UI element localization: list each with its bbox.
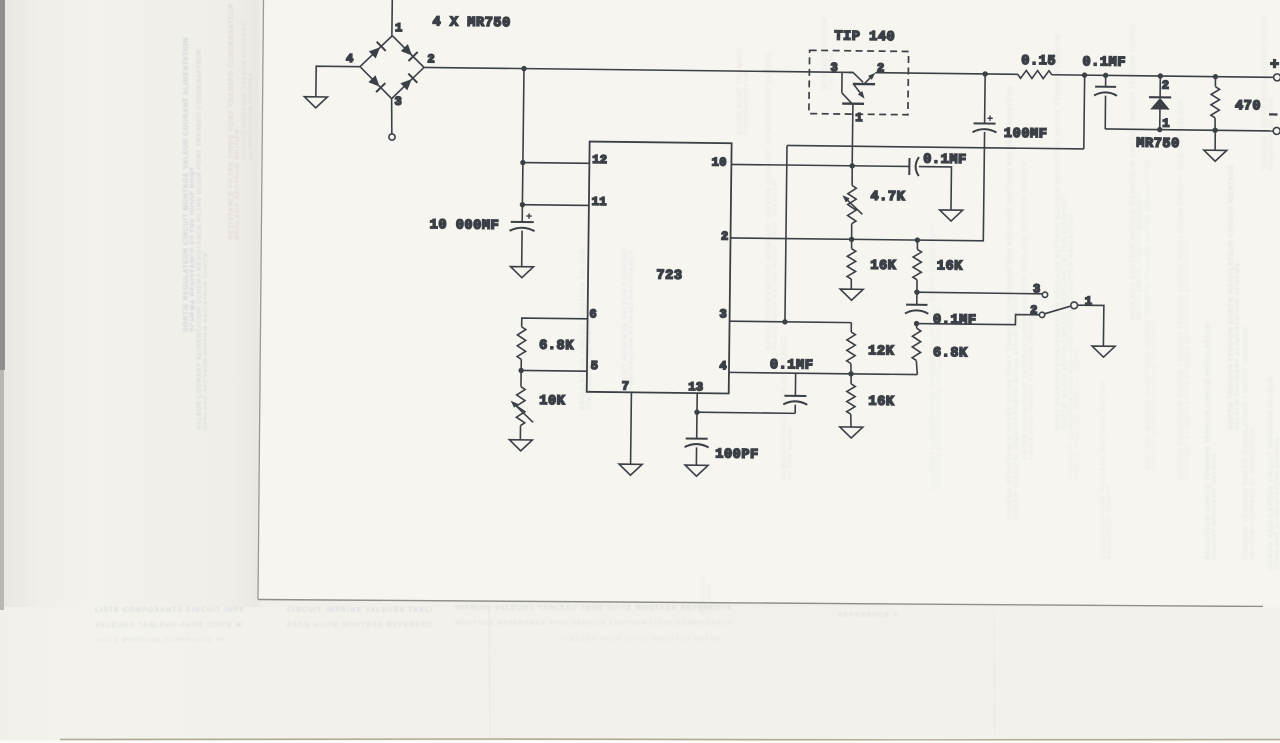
capacitor 0.1MF divider bbox=[906, 304, 927, 306]
wire feedback horizontal bbox=[787, 145, 1084, 148]
svg-text:12: 12 bbox=[592, 153, 607, 167]
svg-text:2: 2 bbox=[877, 61, 884, 75]
svg-text:1: 1 bbox=[1085, 294, 1092, 308]
node contact 2 bbox=[1039, 312, 1044, 317]
svg-text:0.1MF: 0.1MF bbox=[1082, 55, 1126, 71]
wire pole to ground bbox=[1077, 305, 1104, 346]
svg-text:10 000MF: 10 000MF bbox=[430, 218, 500, 234]
ground output bbox=[1204, 150, 1227, 161]
wire cap to ground bbox=[521, 231, 523, 267]
wire to contact 2 bbox=[917, 313, 1040, 325]
svg-text:1: 1 bbox=[1162, 117, 1169, 131]
ground switch bbox=[1092, 346, 1115, 357]
node + terminal bbox=[1274, 74, 1280, 81]
capacitor 10 000MF bbox=[511, 221, 534, 223]
svg-text:+: + bbox=[1270, 56, 1279, 73]
ground pin10 cap bbox=[940, 210, 963, 221]
wire to pin 12 bbox=[523, 162, 589, 165]
wire AC input top bbox=[391, 0, 393, 36]
svg-text:10K: 10K bbox=[539, 394, 566, 409]
node switch pole 1 bbox=[1071, 302, 1078, 309]
potentiometer 10K bbox=[520, 370, 522, 386]
wire filter vertical bbox=[522, 69, 524, 222]
junction pin13 bbox=[694, 409, 699, 414]
svg-text:5: 5 bbox=[591, 359, 598, 373]
svg-text:6.8K: 6.8K bbox=[933, 346, 968, 361]
resistor 16K right bbox=[916, 240, 918, 249]
schematic sheet bbox=[258, 0, 1280, 608]
faint vertical fold below sheet bbox=[489, 607, 490, 737]
svg-text:3: 3 bbox=[1033, 282, 1040, 296]
node AC terminal O bbox=[389, 134, 395, 140]
svg-text:3: 3 bbox=[719, 307, 726, 321]
junction emitter/pin10 bbox=[849, 163, 854, 168]
wire pin 10 bbox=[731, 164, 909, 166]
svg-text:11: 11 bbox=[592, 195, 607, 209]
svg-text:6.8K: 6.8K bbox=[539, 339, 574, 354]
resistor 6.8K right bbox=[915, 324, 917, 329]
resistor 6.8K left bbox=[517, 327, 526, 360]
svg-text:4: 4 bbox=[346, 52, 353, 66]
svg-text:0.15: 0.15 bbox=[1021, 54, 1056, 69]
svg-text:4: 4 bbox=[719, 359, 726, 373]
wire pin 5 bbox=[521, 369, 587, 372]
resistor 16K bottom bbox=[850, 374, 852, 384]
svg-text:2: 2 bbox=[427, 52, 434, 66]
capacitor 100MF bbox=[982, 71, 987, 76]
svg-text:TIP 140: TIP 140 bbox=[834, 29, 895, 45]
svg-text:16K: 16K bbox=[870, 259, 897, 274]
svg-text:16K: 16K bbox=[937, 259, 964, 274]
wire feedback vertical bbox=[785, 145, 787, 321]
wire emitter down bbox=[851, 104, 854, 166]
scanner left dark edge bbox=[0, 0, 5, 370]
svg-text:1: 1 bbox=[395, 21, 402, 35]
junction pin5 bbox=[518, 368, 523, 373]
wire rail to ground bbox=[1214, 130, 1216, 150]
junction 12K/pin4 bbox=[848, 371, 853, 376]
wire pin 4 bbox=[729, 372, 917, 374]
junction 4.7K/pin2 bbox=[849, 237, 854, 242]
junction pin12 bbox=[520, 160, 525, 165]
sheet left edge bbox=[258, 0, 264, 600]
junction pin11 bbox=[520, 202, 525, 207]
sheet bottom edge bbox=[258, 600, 1263, 607]
node contact 3 bbox=[1042, 292, 1047, 297]
wire to pin 11 bbox=[522, 204, 588, 207]
capacitor 0.1MF pin4 bbox=[794, 373, 796, 396]
svg-text:3: 3 bbox=[394, 95, 401, 109]
wire cap to ground bbox=[918, 167, 951, 210]
ground bridge bbox=[304, 97, 327, 108]
svg-text:100MF: 100MF bbox=[1004, 127, 1048, 143]
svg-text:100PF: 100PF bbox=[715, 447, 759, 463]
junction feedback/main bbox=[1082, 72, 1087, 77]
wire negative rail bbox=[1105, 129, 1273, 131]
junction 16K right/pin2 bbox=[915, 237, 920, 242]
capacitor 0.1MF pin10 bbox=[908, 158, 910, 175]
bottom page boundary line bbox=[60, 739, 1280, 740]
potentiometer 4.7K bbox=[851, 166, 853, 186]
ground 16K bottom bbox=[840, 427, 863, 438]
resistor 470 bbox=[1213, 74, 1218, 79]
svg-text:2: 2 bbox=[1030, 303, 1037, 317]
switch arm bbox=[1045, 306, 1071, 314]
svg-text:16K: 16K bbox=[868, 395, 895, 410]
wire main positive rail bbox=[424, 67, 854, 72]
svg-text:12K: 12K bbox=[868, 344, 895, 359]
svg-text:2: 2 bbox=[721, 229, 728, 243]
svg-text:4 X MR750: 4 X MR750 bbox=[432, 15, 510, 31]
junction pin3/feedback bbox=[782, 319, 787, 324]
wire pin 2 bbox=[731, 129, 985, 241]
svg-text:10: 10 bbox=[712, 155, 727, 169]
wire bridge pin3 stub bbox=[391, 99, 392, 134]
node - terminal bbox=[1273, 127, 1280, 134]
transistor symbol bbox=[841, 72, 843, 92]
wire feedback up to main bbox=[1083, 75, 1086, 149]
junction main/filter bbox=[521, 66, 526, 71]
ground 100PF bbox=[685, 465, 708, 476]
bridge rectifier 4 X MR750 bbox=[360, 35, 425, 99]
svg-text:3: 3 bbox=[830, 61, 837, 75]
junction sense 2 bbox=[914, 321, 919, 326]
svg-text:4.7K: 4.7K bbox=[870, 190, 905, 205]
svg-text:13: 13 bbox=[688, 380, 703, 394]
svg-text:470: 470 bbox=[1235, 99, 1261, 114]
wire to contact 3 bbox=[917, 292, 1042, 294]
wire pin 13 bbox=[696, 393, 699, 438]
svg-text:7: 7 bbox=[622, 379, 629, 393]
transistor Q1 TIP 140 dashed package bbox=[809, 50, 909, 114]
op-amp U1 723 regulator bbox=[587, 142, 732, 394]
svg-text:0.1MF: 0.1MF bbox=[923, 153, 967, 169]
below sheet tone bbox=[0, 607, 1280, 743]
wire bridge pin4 to ground bbox=[316, 66, 360, 97]
svg-text:MR750: MR750 bbox=[1136, 137, 1180, 153]
ground 10K bbox=[509, 440, 532, 451]
svg-text:0.1MF: 0.1MF bbox=[770, 358, 814, 374]
junction sense 3 bbox=[914, 289, 919, 294]
wire pin13 to cap 0.1MF bbox=[697, 412, 795, 413]
svg-text:6: 6 bbox=[589, 307, 596, 321]
ground filter bbox=[510, 267, 533, 278]
svg-text:1: 1 bbox=[855, 111, 862, 125]
svg-text:723: 723 bbox=[656, 269, 682, 284]
resistor 0.15 bbox=[1018, 70, 1052, 78]
ground 16K left bbox=[840, 289, 863, 300]
svg-text:0.1MF: 0.1MF bbox=[933, 313, 977, 329]
wire pin 7 bbox=[630, 392, 633, 464]
diode MR750 output bbox=[1158, 73, 1163, 78]
svg-text:2: 2 bbox=[1162, 79, 1169, 93]
capacitor 100PF bbox=[686, 437, 708, 439]
wire pin 3 bbox=[730, 321, 852, 322]
resistor 12K bbox=[850, 323, 852, 332]
resistor 16K left bbox=[851, 239, 853, 248]
wire pin 6 bbox=[522, 318, 588, 328]
ground pin7 bbox=[619, 464, 642, 475]
